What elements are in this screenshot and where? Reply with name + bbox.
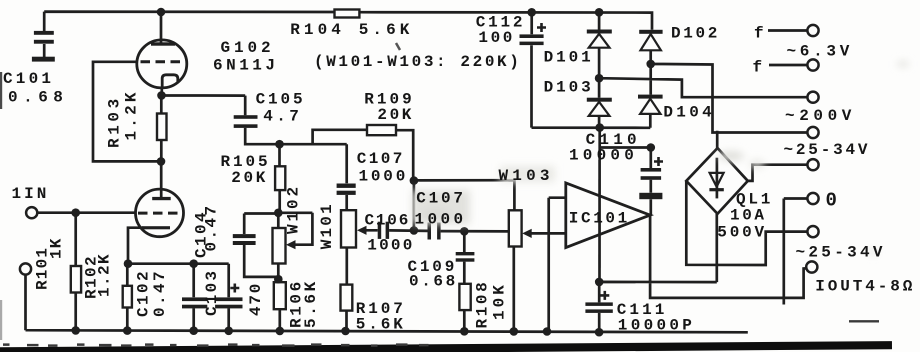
svg-text:f: f [754, 25, 764, 43]
svg-text:1000: 1000 [415, 211, 467, 229]
svg-text:R103: R103 [106, 95, 124, 148]
svg-text:100: 100 [478, 29, 515, 47]
svg-text:R104 5.6K: R104 5.6K [290, 21, 413, 39]
svg-text:500V: 500V [717, 223, 767, 241]
svg-text:10K: 10K [491, 282, 509, 320]
svg-text:10000: 10000 [569, 147, 638, 165]
svg-text:0.68: 0.68 [409, 273, 458, 291]
svg-text:W103: W103 [499, 167, 554, 185]
svg-text:1000: 1000 [359, 168, 409, 186]
svg-text:G102: G102 [221, 39, 275, 57]
svg-text:470: 470 [247, 282, 265, 316]
svg-text:D103: D103 [544, 79, 594, 97]
svg-text:C106: C106 [365, 211, 411, 229]
svg-text:D101: D101 [544, 49, 594, 67]
svg-text:1000: 1000 [367, 237, 414, 255]
svg-text:~6.3V: ~6.3V [787, 43, 854, 61]
svg-text:1.2K: 1.2K [123, 89, 141, 140]
svg-text:R108: R108 [474, 280, 492, 329]
svg-text:0: 0 [826, 190, 837, 212]
svg-text:20K: 20K [231, 169, 268, 187]
svg-text:IC101: IC101 [569, 210, 630, 228]
svg-text:C103: C103 [203, 269, 221, 316]
svg-text:~200V: ~200V [785, 107, 856, 125]
svg-text:C101: C101 [3, 70, 54, 88]
svg-text:6N11J: 6N11J [213, 56, 279, 74]
svg-text:4.7: 4.7 [263, 108, 302, 126]
svg-text:1.2K: 1.2K [96, 253, 114, 297]
svg-text:1K: 1K [47, 237, 65, 259]
svg-text:D102: D102 [671, 25, 720, 43]
svg-text:~25-34V: ~25-34V [796, 244, 886, 262]
svg-text:C107: C107 [416, 190, 466, 208]
svg-text:0.68: 0.68 [8, 89, 68, 107]
svg-text:W101: W101 [318, 202, 336, 249]
svg-text:~25-34V: ~25-34V [784, 141, 871, 159]
svg-text:W102: W102 [285, 184, 303, 234]
svg-text:D104: D104 [663, 104, 715, 122]
svg-text:10000P: 10000P [618, 317, 695, 335]
svg-text:IOUT4-8Ω: IOUT4-8Ω [815, 278, 915, 296]
svg-text:0.47: 0.47 [151, 269, 169, 317]
svg-text:5.6K: 5.6K [302, 279, 320, 328]
svg-text:10A: 10A [730, 207, 767, 225]
svg-text:0.47: 0.47 [203, 203, 221, 251]
svg-text:C107: C107 [357, 150, 405, 168]
svg-text:(W101-W103: 220K): (W101-W103: 220K) [314, 53, 521, 71]
svg-text:20K: 20K [377, 106, 414, 124]
svg-text:C102: C102 [135, 269, 153, 317]
svg-text:C105: C105 [256, 90, 306, 108]
svg-text:5.6K: 5.6K [356, 315, 406, 333]
svg-text:f: f [753, 58, 763, 76]
svg-text:1IN: 1IN [12, 185, 50, 203]
